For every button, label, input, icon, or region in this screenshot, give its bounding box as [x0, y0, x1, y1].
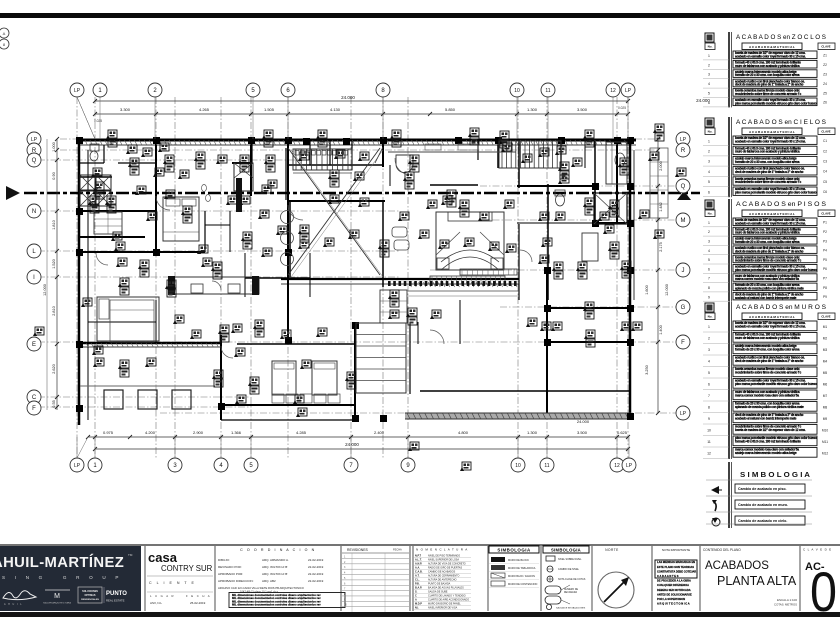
svg-text:1: 1 [708, 325, 710, 329]
svg-text:ARQ. WILTON A´B´: ARQ. WILTON A´B´ [262, 565, 288, 569]
svg-text:PUNTO DE BAJADA: PUNTO DE BAJADA [428, 583, 451, 586]
svg-text:REVISIONES: REVISIONES [347, 548, 368, 552]
svg-text:muro de tablaroca con acabado: muro de tablaroca con acabado y pintura … [735, 336, 800, 340]
svg-text:F E C H A: F E C H A [186, 594, 211, 598]
svg-text:N O M E N C L A T U R A: N O M E N C L A T U R A [416, 548, 468, 552]
svg-text:5.850: 5.850 [445, 107, 456, 112]
svg-text:Cambio de acabado en piso.: Cambio de acabado en piso. [738, 487, 787, 491]
svg-text:A C A B A D O & M A T E R I: A C A B A D O & M A T E R I A L [749, 315, 795, 319]
svg-text:deck de madera de pino de 1" t: deck de madera de pino de 1" tratada a 2… [735, 359, 804, 363]
svg-text:A.N.P.: A.N.P. [415, 563, 422, 566]
svg-text:N.P.T: N.P.T [415, 555, 422, 558]
svg-text:No.: No. [708, 45, 713, 49]
svg-text:11: 11 [544, 463, 549, 469]
svg-text:S I N G G R O U P: S I N G G R O U P [2, 575, 123, 580]
svg-text:A: A [415, 599, 417, 602]
svg-text:Q: Q [681, 184, 686, 190]
svg-text:F: F [681, 340, 685, 346]
svg-text:0.55: 0.55 [52, 400, 56, 407]
svg-text:25-02-2019: 25-02-2019 [190, 601, 206, 605]
svg-text:2: 2 [708, 230, 710, 234]
svg-text:A.T.: A.T. [415, 575, 420, 578]
svg-text:No.: No. [708, 212, 713, 216]
svg-text:M10: M10 [822, 428, 828, 432]
svg-text:APROBADO POR:: APROBADO POR: [218, 572, 243, 576]
svg-text:BAJADA DE AGUAS PLUVIALES: BAJADA DE AGUAS PLUVIALES [428, 587, 464, 590]
svg-text:Z1: Z1 [823, 54, 827, 58]
svg-text:marca comex modelo rosa claro: marca comex modelo rosa claro con sellad… [735, 393, 799, 397]
svg-text:A C A B A D O S en M U R O S: A C A B A D O S en M U R O S [736, 305, 826, 311]
svg-text:S.: S. [415, 591, 418, 594]
svg-text:2: 2 [708, 63, 710, 67]
svg-text:C A D A A N T E S: C A D A A N T E S [657, 574, 679, 578]
svg-text:recubrimiento sobre firme de c: recubrimiento sobre firme de concreto ar… [735, 370, 801, 374]
svg-text:A R Q U I T E C T O N I C A: A R Q U I T E C T O N I C A [657, 602, 690, 606]
svg-text:1.300: 1.300 [527, 430, 538, 435]
svg-text:CLAVE: CLAVE [821, 315, 830, 319]
svg-text:SALIDA DE INSTALACIONES: SALIDA DE INSTALACIONES [556, 607, 586, 610]
svg-text:Q: Q [32, 158, 37, 164]
svg-text:C1: C1 [823, 139, 827, 143]
svg-text:C O O R D I N A C I O N: C O O R D I N A C I O N [240, 548, 316, 552]
svg-text:acabado al natural con barniz: acabado al natural con barniz intemperie… [735, 296, 797, 300]
svg-text:10: 10 [515, 463, 521, 469]
svg-text:J: J [682, 268, 685, 274]
svg-text:CONTRY SUR: CONTRY SUR [161, 564, 213, 573]
svg-text:FECHA: FECHA [393, 548, 402, 552]
svg-text:3: 3 [708, 73, 710, 77]
svg-text:NIVEL SOBRE NIVEL: NIVEL SOBRE NIVEL [558, 558, 582, 561]
svg-text:1: 1 [708, 221, 710, 225]
svg-text:P2: P2 [823, 230, 827, 234]
svg-text:6: 6 [708, 267, 710, 271]
svg-text:12.000: 12.000 [665, 284, 669, 296]
svg-text:muro de tablaroca con acabado: muro de tablaroca con acabado y pintura … [735, 150, 800, 154]
svg-text:R: R [681, 148, 686, 154]
svg-text:N: N [32, 209, 36, 215]
svg-text:NUMERO DE: NUMERO DE [564, 589, 579, 591]
svg-text:RECAMARA: RECAMARA [564, 591, 577, 594]
svg-text:7: 7 [708, 277, 710, 281]
svg-text:LP: LP [74, 88, 81, 94]
svg-text:1.600: 1.600 [645, 285, 649, 295]
svg-text:NIVEL INFERIOR DE VIGA: NIVEL INFERIOR DE VIGA [428, 607, 458, 610]
svg-text:4.200: 4.200 [145, 430, 156, 435]
svg-text:piso marca porcelanite modelo: piso marca porcelanite modelo etrusco gr… [735, 101, 817, 105]
svg-text:A C A B A D O S en C I E L O: A C A B A D O S en C I E L O S [736, 120, 826, 126]
svg-text:M6: M6 [823, 382, 828, 386]
svg-text:12.000: 12.000 [43, 284, 47, 296]
svg-text:DE PROCEDER A LA OBRA: DE PROCEDER A LA OBRA [657, 579, 691, 583]
svg-text:REAL ESTATE: REAL ESTATE [106, 599, 125, 603]
svg-text:TALLER ARQUITECTURA: TALLER ARQUITECTURA [43, 602, 71, 605]
svg-text:formato 40 x 60.3 cms. 160 m2: formato 40 x 60.3 cms. 160 m2 terminado … [735, 439, 801, 443]
svg-text:piso marca porcelanite modelo: piso marca porcelanite modelo etrusco gr… [735, 190, 817, 194]
svg-text:12: 12 [707, 451, 711, 455]
svg-text:DEBERA SER NOTIFICADA: DEBERA SER NOTIFICADA [657, 588, 691, 592]
svg-text:1: 1 [708, 139, 710, 143]
svg-text:LP: LP [680, 411, 687, 417]
svg-text:M3: M3 [823, 348, 828, 352]
svg-text:CLAVE: CLAVE [821, 212, 830, 216]
svg-text:10: 10 [514, 88, 520, 94]
svg-text:C L A V E D E: C L A V E D E [803, 548, 832, 552]
svg-text:M4: M4 [823, 359, 828, 363]
svg-text:LP: LP [680, 137, 687, 143]
svg-text:PLANTA ALTA: PLANTA ALTA [717, 574, 797, 588]
svg-text:7: 7 [708, 394, 710, 398]
svg-text:22-02-2019: 22-02-2019 [308, 565, 324, 569]
svg-text:azulejo marca interceramic mod: azulejo marca interceramic modelo atica … [735, 451, 797, 455]
svg-text:CAMBIO DE NIVEL: CAMBIO DE NIVEL [558, 568, 580, 571]
svg-text:REVISADO POR:: REVISADO POR: [218, 565, 242, 569]
svg-text:9: 9 [708, 295, 710, 299]
svg-text:APROBADO DIRECCION:: APROBADO DIRECCION: [218, 579, 254, 583]
svg-text:4: 4 [708, 82, 710, 86]
svg-text:casa: casa [148, 550, 178, 565]
svg-text:SIMBOLOGIA: SIMBOLOGIA [551, 547, 581, 552]
svg-text:A C A B A D O S en Z O C L O: A C A B A D O S en Z O C L O S [736, 35, 826, 41]
svg-text:1.505: 1.505 [264, 107, 275, 112]
svg-text:CUARTO DE AIRE ACONDICIONADO: CUARTO DE AIRE ACONDICIONADO [428, 599, 469, 602]
svg-text:A C A B A D O S en P I S O S: A C A B A D O S en P I S O S [736, 202, 826, 208]
svg-text:acabado en esmalte color royal: acabado en esmalte color royal formado 3… [735, 221, 806, 225]
svg-text:aplanado de mezcla pulido con: aplanado de mezcla pulido con pintura vi… [735, 405, 804, 409]
svg-text:OPTIMAS: OPTIMAS [85, 594, 96, 597]
svg-text:M12: M12 [822, 451, 828, 455]
svg-text:deck de madera de pino de 1" t: deck de madera de pino de 1" tratada a 2… [735, 170, 804, 174]
svg-text:6: 6 [708, 190, 710, 194]
svg-text:MURO DE TABLAROCA: MURO DE TABLAROCA [508, 567, 536, 570]
svg-text:C L I E N T E: C L I E N T E [149, 581, 196, 585]
svg-text:ALTURA DE ANTEPECHO: ALTURA DE ANTEPECHO [428, 579, 457, 582]
svg-text:1.366: 1.366 [231, 430, 242, 435]
svg-text:5: 5 [708, 180, 710, 184]
svg-text:ARQ. WILTON A´B´: ARQ. WILTON A´B´ [262, 572, 288, 576]
svg-text:0.025: 0.025 [618, 106, 626, 110]
svg-text:CONTENIDO DEL PLANO: CONTENIDO DEL PLANO [703, 548, 741, 552]
svg-text:LP: LP [74, 463, 81, 469]
svg-text:6: 6 [708, 382, 710, 386]
svg-text:P6: P6 [823, 267, 827, 271]
svg-text:LP: LP [625, 88, 632, 94]
svg-text:11: 11 [545, 88, 550, 94]
svg-text:acabado en esmalte color royal: acabado en esmalte color royal formado 3… [735, 54, 806, 58]
svg-text:B.A.P.: B.A.P. [415, 587, 422, 590]
svg-text:P3: P3 [823, 239, 827, 243]
svg-text:C4: C4 [823, 170, 827, 174]
svg-text:Cambio de acabado en muro.: Cambio de acabado en muro. [738, 503, 788, 507]
svg-text:muro de tablaroca con acabado: muro de tablaroca con acabado y pintura … [735, 231, 800, 235]
svg-text:AHUIL-MARTÍNEZ: AHUIL-MARTÍNEZ [0, 554, 124, 571]
svg-text:recubrimiento sobre firme de c: recubrimiento sobre firme de concreto ar… [735, 259, 801, 263]
svg-text:1.520: 1.520 [52, 259, 56, 269]
svg-text:ESCALA 1:100: ESCALA 1:100 [777, 598, 797, 602]
svg-text:RESIDENCIALES: RESIDENCIALES [81, 598, 99, 601]
svg-text:piso marca porcelanite modelo: piso marca porcelanite modelo etrusco gr… [735, 268, 817, 272]
svg-text:ALTURA DE VIGA DE CONCRETO: ALTURA DE VIGA DE CONCRETO [428, 563, 466, 566]
svg-text:Z3: Z3 [823, 73, 827, 77]
svg-text:1.810: 1.810 [52, 220, 56, 230]
svg-text:C5: C5 [823, 180, 827, 184]
svg-text:4: 4 [708, 359, 710, 363]
svg-text:M11: M11 [822, 440, 828, 444]
svg-text:M8: M8 [823, 405, 828, 409]
svg-text:3: 3 [708, 348, 710, 352]
svg-text:C.A.B.: C.A.B. [415, 571, 423, 574]
svg-text:aplanado de mezcla pulido con: aplanado de mezcla pulido con pintura vi… [735, 287, 804, 291]
svg-text:0.025: 0.025 [94, 119, 102, 123]
svg-text:1.300: 1.300 [527, 107, 538, 112]
svg-text:recubrimiento sobre firme de c: recubrimiento sobre firme de concreto ar… [735, 92, 801, 96]
svg-text:3: 3 [708, 160, 710, 164]
svg-text:MURO BAJO / FALDON: MURO BAJO / FALDON [508, 575, 535, 578]
svg-text:22-02-2019: 22-02-2019 [308, 579, 324, 583]
svg-text:PUNTO: PUNTO [106, 591, 127, 597]
svg-text:4.265: 4.265 [199, 107, 210, 112]
svg-text:3.300: 3.300 [120, 107, 131, 112]
svg-text:ALTURA DE CERRAMIENTO: ALTURA DE CERRAMIENTO [428, 575, 460, 578]
svg-text:2: 2 [708, 336, 710, 340]
svg-text:12: 12 [610, 88, 616, 94]
svg-text:22-02-2019: 22-02-2019 [308, 572, 324, 576]
svg-text:formato de 20 x 30 cms. con bo: formato de 20 x 30 cms. con boquilla col… [735, 240, 800, 244]
svg-text:deck de madera de pino de 1" t: deck de madera de pino de 1" tratada a 2… [735, 249, 804, 253]
svg-text:2.000: 2.000 [659, 161, 663, 171]
svg-text:LP: LP [626, 463, 633, 469]
svg-text:CUARTO DE LAVADO Y TENDIDO: CUARTO DE LAVADO Y TENDIDO [428, 595, 466, 598]
svg-text:TM: TM [128, 553, 133, 557]
svg-text:5: 5 [708, 92, 710, 96]
svg-text:1: 1 [708, 54, 710, 58]
svg-text:A C A B A D O & M A T E R I: A C A B A D O & M A T E R I A L [749, 130, 795, 134]
svg-text:2.400: 2.400 [374, 430, 385, 435]
svg-text:acabado en esmalte color royal: acabado en esmalte color royal formado 3… [735, 139, 806, 143]
svg-text:N.I.: N.I. [415, 607, 419, 610]
svg-text:MURO DE BLOCK: MURO DE BLOCK [508, 559, 529, 562]
svg-text:piso marca porcelanite modelo: piso marca porcelanite modelo etrusco gr… [735, 382, 817, 386]
svg-text:POR LA SUPERVISION: POR LA SUPERVISION [657, 597, 685, 601]
svg-text:NOTA IMPORTANTE: NOTA IMPORTANTE [662, 548, 690, 552]
svg-text:G: G [681, 305, 686, 311]
svg-text:P9: P9 [823, 295, 827, 299]
svg-text:6: 6 [708, 101, 710, 105]
svg-text:2.175: 2.175 [659, 242, 663, 252]
svg-text:P1: P1 [823, 221, 827, 225]
svg-text:muro de tablaroca con acabado: muro de tablaroca con acabado y pintura … [735, 64, 800, 68]
svg-text:formato de 20 x 30 cms. con bo: formato de 20 x 30 cms. con boquilla col… [735, 160, 800, 164]
svg-text:CLAVE: CLAVE [821, 45, 830, 49]
svg-text:4.800: 4.800 [458, 430, 469, 435]
svg-text:ANTES DE SOLUCIONARSE: ANTES DE SOLUCIONARSE [657, 592, 692, 596]
svg-text:CUALQUIER DIFERENCIA: CUALQUIER DIFERENCIA [657, 583, 689, 587]
svg-text:8: 8 [708, 286, 710, 290]
svg-text:2.620: 2.620 [52, 364, 56, 374]
svg-text:CONTRATISTA DEBE COTEJAR: CONTRATISTA DEBE COTEJAR [657, 569, 696, 573]
svg-text:3.250: 3.250 [645, 365, 649, 375]
svg-text:P8: P8 [823, 286, 827, 290]
svg-text:RADIO DE GIRO DE PUERTAS: RADIO DE GIRO DE PUERTAS [428, 567, 462, 570]
svg-text:acabado al natural con barniz: acabado al natural con barniz intemperie… [735, 416, 797, 420]
svg-text:M2: M2 [823, 336, 828, 340]
svg-text:5: 5 [708, 258, 710, 262]
svg-text:NOTA CLAVE DE COTAS: NOTA CLAVE DE COTAS [558, 578, 586, 581]
svg-text:A H U I L: A H U I L [4, 603, 23, 606]
svg-text:11: 11 [707, 440, 711, 444]
svg-text:1.482: 1.482 [659, 202, 663, 212]
svg-text:3.500: 3.500 [577, 107, 588, 112]
svg-text:A C A B A D O & M A T E R I: A C A B A D O & M A T E R I A L [749, 45, 795, 49]
svg-text:P4: P4 [823, 249, 827, 253]
svg-text:A C A B A D O & M A T E R I: A C A B A D O & M A T E R I A L [749, 212, 795, 216]
svg-text:C.L.: C.L. [415, 579, 420, 582]
svg-text:12: 12 [614, 463, 620, 469]
svg-text:C2: C2 [823, 149, 827, 153]
svg-text:A: A [3, 31, 6, 36]
svg-text:2: 2 [708, 150, 710, 154]
svg-text:S I M B O L O G I A: S I M B O L O G I A [740, 470, 811, 479]
svg-text:Z6: Z6 [823, 101, 827, 105]
svg-text:22-02-2019: 22-02-2019 [308, 558, 324, 562]
svg-text:E: E [32, 342, 36, 348]
svg-text:4: 4 [708, 170, 710, 174]
svg-text:M: M [681, 218, 686, 224]
svg-text:3.500: 3.500 [577, 430, 588, 435]
svg-text:5: 5 [708, 371, 710, 375]
svg-text:8: 8 [708, 405, 710, 409]
svg-text:2.900: 2.900 [193, 430, 204, 435]
svg-text:No.: No. [708, 315, 713, 319]
svg-text:ESTE PLANO SON TEORICAS: ESTE PLANO SON TEORICAS [657, 565, 694, 569]
svg-text:Cambio de acabado en cielo.: Cambio de acabado en cielo. [738, 519, 787, 523]
svg-text:SIMBOLOGIA: SIMBOLOGIA [497, 547, 531, 552]
svg-text:ARCHIVO CAD: EX-CA010 VILLA S: ARCHIVO CAD: EX-CA010 VILLA SIETE RIOS P… [218, 586, 304, 590]
svg-text:M.D.P: M.D.P [415, 603, 422, 606]
svg-text:P5: P5 [823, 258, 827, 262]
svg-text:P.B.: P.B. [415, 583, 420, 586]
svg-text:CAMBIO DE ACABADOS: CAMBIO DE ACABADOS [428, 571, 456, 574]
svg-text:F: F [32, 406, 36, 412]
svg-text:1.400: 1.400 [659, 325, 663, 335]
svg-text:C: C [32, 395, 37, 401]
svg-text:4: 4 [708, 249, 710, 253]
svg-text:C6: C6 [823, 190, 827, 194]
svg-text:formato de 20 x 30 cms. con bo: formato de 20 x 30 cms. con boquilla col… [735, 73, 800, 77]
svg-text:LP: LP [31, 137, 38, 143]
svg-text:M5: M5 [823, 371, 828, 375]
svg-text:MIL dimensiones documentacion: MIL dimensiones documentacion controles … [232, 603, 321, 607]
svg-text:C3: C3 [823, 160, 827, 164]
svg-text:SOLUCIONES: SOLUCIONES [82, 590, 98, 593]
svg-text:ARQ. AB2: ARQ. AB2 [262, 579, 276, 583]
svg-text:9: 9 [708, 417, 710, 421]
svg-text:10: 10 [707, 428, 711, 432]
svg-text:No.: No. [708, 130, 713, 134]
svg-text:marca comex modelo rosa claro: marca comex modelo rosa claro con sellad… [735, 277, 799, 281]
svg-text:0.625: 0.625 [617, 430, 628, 435]
svg-text:loseta de madera de 1/2" de es: loseta de madera de 1/2" de espesor clar… [735, 428, 806, 432]
svg-text:SALIDA DE SUBE: SALIDA DE SUBE [428, 591, 448, 594]
svg-text:Z2: Z2 [823, 63, 827, 67]
svg-text:recubrimiento sobre firme de c: recubrimiento sobre firme de concreto ar… [735, 180, 801, 184]
svg-text:0.90: 0.90 [52, 172, 56, 179]
svg-text:DIBUJO:: DIBUJO: [218, 558, 230, 562]
svg-text:4.285: 4.285 [296, 430, 307, 435]
svg-text:M1: M1 [823, 325, 828, 329]
svg-text:L U G A R: L U G A R [150, 594, 175, 598]
svg-text:acabado en esmalte color royal: acabado en esmalte color royal formado 3… [735, 324, 806, 328]
svg-text:0: 0 [810, 560, 837, 623]
svg-text:Z4: Z4 [823, 82, 827, 86]
svg-text:2.810: 2.810 [52, 306, 56, 316]
svg-text:1.000: 1.000 [52, 142, 56, 152]
svg-text:deck de madera de pino de 1" t: deck de madera de pino de 1" tratada a 2… [735, 83, 804, 87]
svg-text:LAS MEDIDAS MARCADAS EN: LAS MEDIDAS MARCADAS EN [657, 560, 695, 564]
svg-text:A.A.: A.A. [415, 567, 420, 570]
svg-text:M9: M9 [823, 417, 828, 421]
svg-text:24.000: 24.000 [341, 95, 355, 100]
svg-text:3: 3 [708, 239, 710, 243]
svg-text:ARQ. ARMANDO A.: ARQ. ARMANDO A. [262, 558, 289, 562]
svg-text:formato de 20 x 30 cms. con bo: formato de 20 x 30 cms. con boquilla col… [735, 347, 800, 351]
svg-text:NIVEL DE PISO TERMINADO: NIVEL DE PISO TERMINADO [428, 555, 460, 558]
svg-text:P7: P7 [823, 276, 827, 280]
svg-text:MURO DE CONTENCION: MURO DE CONTENCION [508, 583, 538, 586]
svg-text:M7: M7 [823, 394, 828, 398]
svg-text:COTAS: METROS: COTAS: METROS [774, 603, 797, 607]
svg-text:MURO DIVISORIO DE PANEL: MURO DIVISORIO DE PANEL [428, 603, 461, 606]
svg-text:A.L.T.: A.L.T. [415, 559, 422, 562]
svg-text:ASV, N.L: ASV, N.L [150, 601, 162, 605]
svg-text:C: C [415, 595, 417, 598]
svg-text:NIVEL SUPERIOR DE LOSA: NIVEL SUPERIOR DE LOSA [428, 559, 459, 562]
svg-text:CLAVE: CLAVE [821, 130, 830, 134]
svg-text:Z5: Z5 [823, 91, 827, 95]
svg-text:24.000: 24.000 [577, 419, 590, 424]
svg-text:4.130: 4.130 [330, 107, 341, 112]
svg-text:M: M [54, 593, 60, 600]
svg-text:ACABADOS: ACABADOS [705, 560, 769, 572]
svg-text:NORTE: NORTE [605, 548, 619, 552]
svg-text:24.000: 24.000 [345, 442, 359, 447]
svg-text:0.975: 0.975 [103, 430, 114, 435]
